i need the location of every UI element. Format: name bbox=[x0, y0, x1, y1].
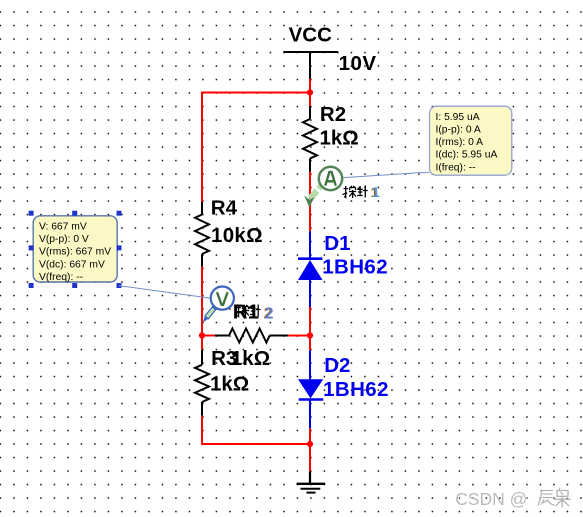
wire R3 to bottom rail (red) bbox=[202, 416, 310, 444]
svg-text:V: 667 mV: V: 667 mV bbox=[39, 221, 87, 232]
svg-text:I(dc): 5.95 uA: I(dc): 5.95 uA bbox=[436, 150, 498, 161]
wire node B right stub (red) bbox=[288, 335, 310, 337]
probe 2 readout box (selected) bbox=[33, 216, 117, 283]
probe 1 ammeter circle bbox=[319, 167, 342, 190]
watermark CSDN bbox=[455, 489, 528, 510]
svg-text:I(freq): --: I(freq): -- bbox=[436, 162, 476, 173]
resistor R3 (vertical) bbox=[195, 336, 209, 416]
resistor R1 (horizontal) bbox=[215, 329, 288, 343]
svg-text:V(dc): 667 mV: V(dc): 667 mV bbox=[39, 259, 105, 270]
svg-text:1kΩ: 1kΩ bbox=[320, 127, 359, 150]
wire VCC to node A (red vertical) bbox=[309, 79, 311, 106]
diode D2 bbox=[298, 336, 323, 445]
svg-text:1: 1 bbox=[372, 184, 380, 200]
diode D1 bbox=[298, 231, 323, 307]
svg-text:1kΩ: 1kΩ bbox=[210, 372, 249, 395]
svg-text:10kΩ: 10kΩ bbox=[211, 224, 263, 247]
selection handles of probe 2 readout bbox=[29, 211, 122, 288]
wire R4 to node B (red) bbox=[201, 267, 203, 336]
svg-text:CSDN @: CSDN @ bbox=[455, 489, 527, 509]
resistor R2 bbox=[303, 106, 317, 172]
probe 1 leader line to readout bbox=[342, 173, 430, 178]
junction node A bbox=[307, 89, 313, 95]
svg-text:D2: D2 bbox=[324, 354, 350, 377]
resistor R4 bbox=[195, 202, 209, 267]
svg-text:1BH62: 1BH62 bbox=[322, 255, 388, 278]
probe 1 arrow head bbox=[304, 195, 314, 208]
probe 2 voltmeter circle bbox=[211, 287, 234, 310]
svg-text:V(rms): 667 mV: V(rms): 667 mV bbox=[39, 247, 111, 258]
probe 1 label 探针1 bbox=[343, 186, 368, 199]
watermark CJK 辰杲 bbox=[538, 488, 571, 509]
probe 1 number 1 bbox=[371, 184, 380, 200]
power VCC symbol bbox=[284, 24, 339, 79]
svg-text:V(freq): --: V(freq): -- bbox=[39, 272, 83, 283]
svg-text:I: 5.95 uA: I: 5.95 uA bbox=[436, 112, 480, 123]
svg-text:I(rms): 0 A: I(rms): 0 A bbox=[436, 137, 484, 148]
probe 1 shaft bbox=[310, 185, 322, 202]
svg-text:R4: R4 bbox=[211, 197, 238, 220]
junction node B left bbox=[199, 332, 205, 338]
probe 2 leader line bbox=[119, 286, 211, 299]
probe 2 number 2 bbox=[264, 306, 274, 323]
wire R2 to D1 (red) bbox=[309, 172, 311, 232]
svg-text:1BH62: 1BH62 bbox=[323, 378, 389, 401]
wire left vertical down to R4 bbox=[201, 92, 203, 202]
svg-text:10V: 10V bbox=[339, 52, 377, 75]
probe 2 handle tip bbox=[203, 316, 209, 323]
junction bottom node bbox=[307, 441, 313, 447]
probe 2 ferrule stripes bbox=[212, 305, 218, 311]
svg-text:D1: D1 bbox=[324, 232, 350, 255]
svg-text:2: 2 bbox=[265, 306, 274, 323]
probe 2 handle body bbox=[205, 306, 217, 319]
svg-text:VCC: VCC bbox=[289, 24, 332, 47]
svg-text:I(p-p): 0 A: I(p-p): 0 A bbox=[436, 124, 481, 135]
wire D1 to node B (red) bbox=[309, 307, 311, 336]
wire node A to left branch (red horizontal) bbox=[202, 92, 310, 94]
wire bottom node to ground (red) bbox=[309, 444, 311, 471]
svg-text:V(p-p): 0 V: V(p-p): 0 V bbox=[39, 234, 89, 245]
probe 2 label 探针2 bbox=[236, 305, 261, 318]
svg-text:R2: R2 bbox=[320, 103, 346, 126]
probe 1 readout box bbox=[430, 106, 512, 175]
wire node B left stub (red) bbox=[202, 335, 215, 337]
svg-text:1kΩ: 1kΩ bbox=[231, 347, 270, 370]
ground bbox=[297, 471, 326, 492]
junction node B right bbox=[307, 332, 313, 338]
